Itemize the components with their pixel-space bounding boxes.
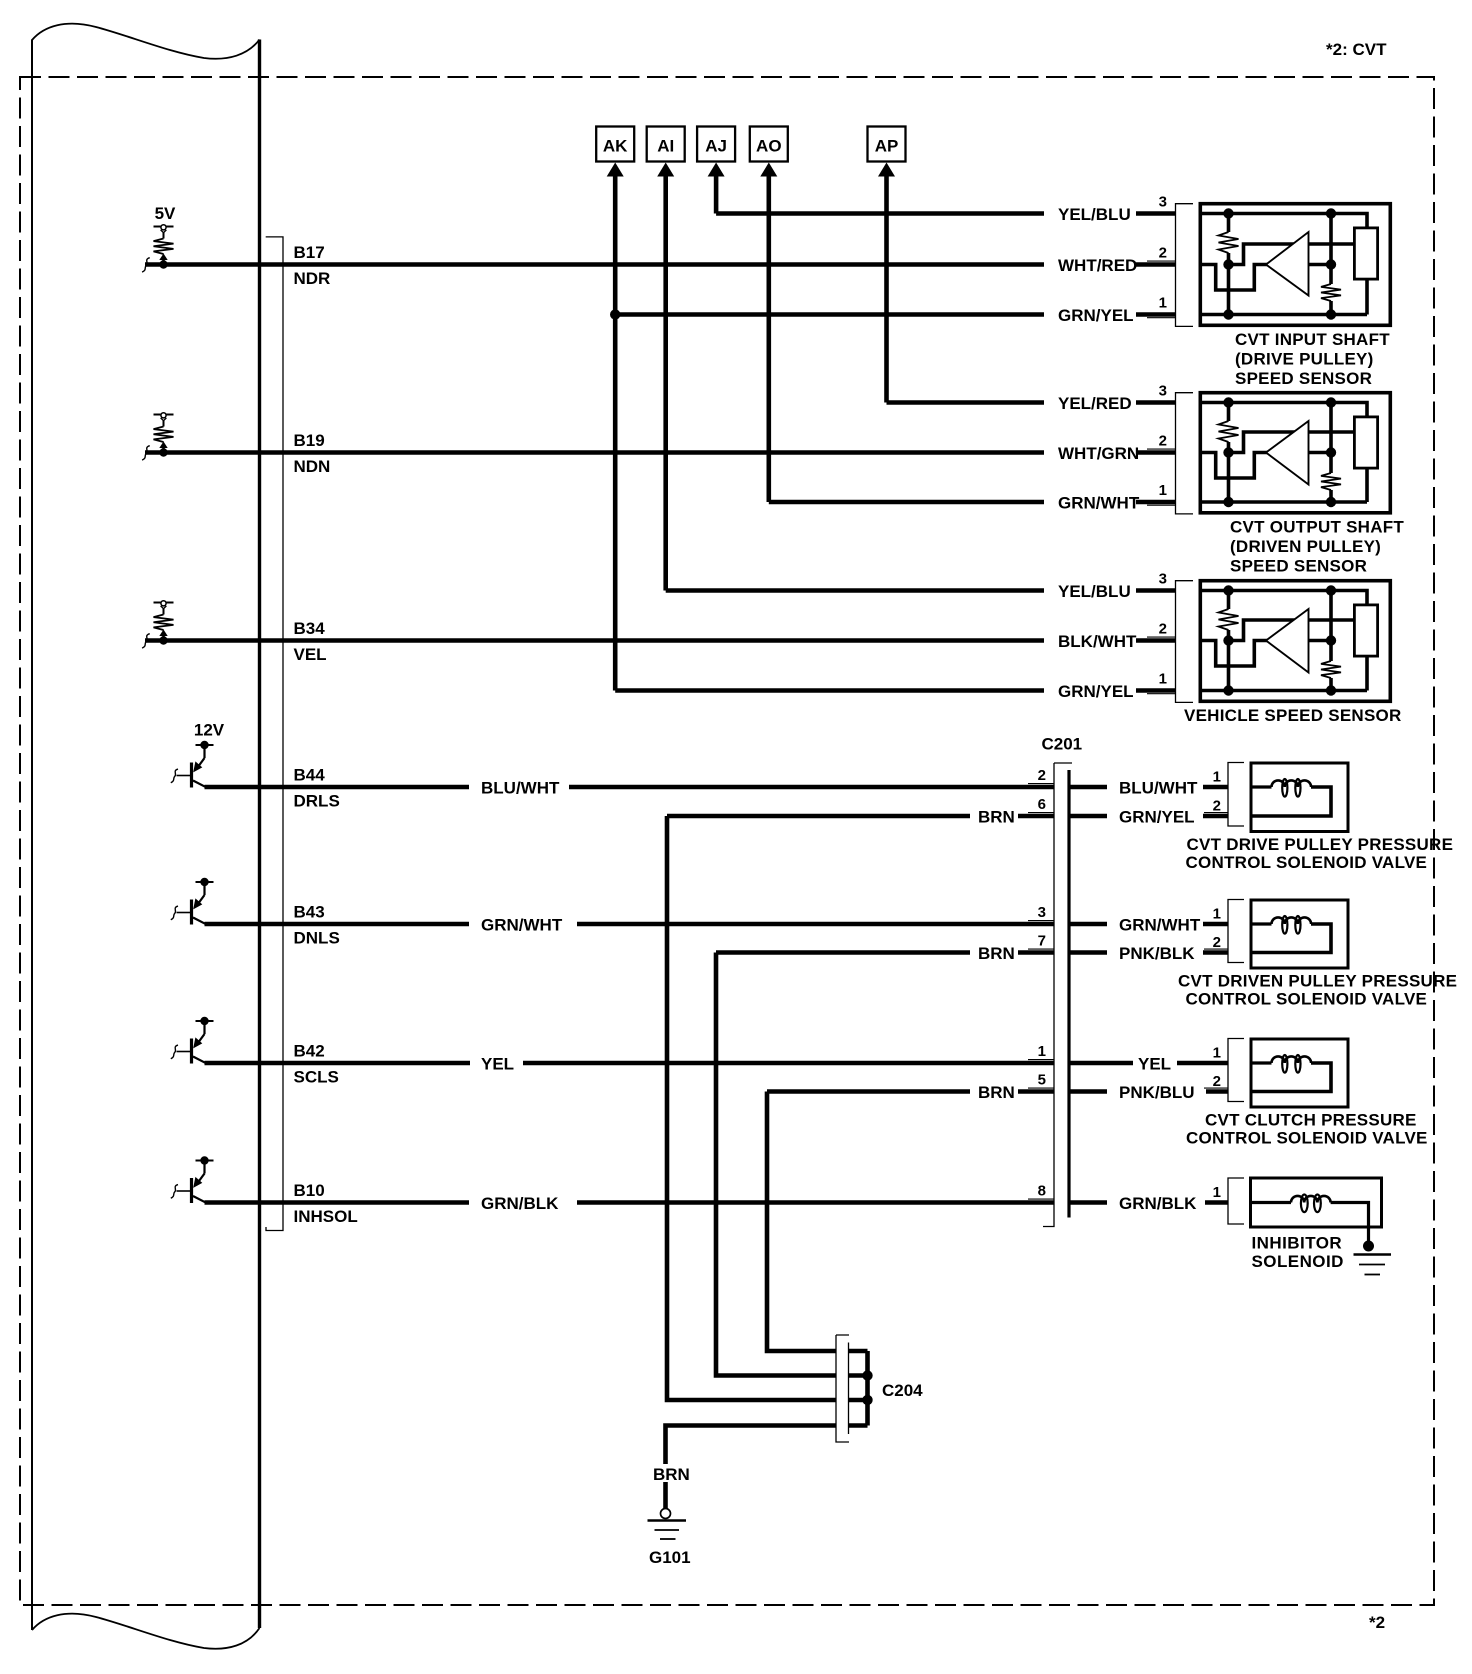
svg-text:1: 1 <box>1213 769 1221 786</box>
svg-text:PNK/BLK: PNK/BLK <box>1119 944 1195 963</box>
transistor Q4 (driver) <box>177 1156 214 1203</box>
connector C204 body <box>836 1335 849 1442</box>
svg-text:BRN: BRN <box>978 1083 1015 1102</box>
wire YEL from C201 <box>1069 1061 1133 1066</box>
sensor 1 junction dots <box>1223 208 1233 218</box>
sensor 1 bias tap wire to amp <box>1229 244 1301 265</box>
svg-text:8: 8 <box>1038 1183 1046 1200</box>
svg-text:GRN/BLK: GRN/BLK <box>1119 1194 1197 1213</box>
svg-text:INHSOL: INHSOL <box>294 1207 358 1226</box>
connector box AO <box>750 127 788 177</box>
svg-text:GRN/WHT: GRN/WHT <box>481 916 563 935</box>
svg-text:BLK/WHT: BLK/WHT <box>1058 632 1137 651</box>
valve 3 pin 2 shelf <box>1204 1087 1228 1089</box>
wire BRN ground leg to C204 <box>666 1426 837 1465</box>
svg-text:5: 5 <box>1038 1072 1046 1089</box>
wire stub into ECM at R3 <box>142 634 150 648</box>
inhibitor connector bracket <box>1228 1178 1244 1224</box>
svg-text:3: 3 <box>1159 383 1167 400</box>
resistor 5V pull-up R2 <box>154 413 174 457</box>
wire YEL to C201 <box>523 1061 1054 1066</box>
svg-text:YEL/BLU: YEL/BLU <box>1058 582 1131 601</box>
wire stub into ECM at Q1 base <box>171 769 178 783</box>
C201 pin 5 shelf <box>1028 1087 1054 1089</box>
svg-text:GRN/WHT: GRN/WHT <box>1058 494 1140 513</box>
svg-text:B10: B10 <box>294 1181 325 1200</box>
sensor 2 signal staircase wire (pin 2) <box>1200 453 1272 479</box>
connector box AK <box>596 127 634 177</box>
svg-text:CVT INPUT SHAFT: CVT INPUT SHAFT <box>1235 330 1390 349</box>
svg-text:BRN: BRN <box>978 808 1015 827</box>
sensor 1 load resistor (rectangle) <box>1354 228 1377 279</box>
connector bracket at sensor 3 <box>1176 581 1194 703</box>
svg-text:1: 1 <box>1038 1043 1046 1060</box>
wire PNK/BLK stub to valve connector <box>1203 950 1228 955</box>
sensor 3 left bias resistor branch <box>1227 591 1231 610</box>
svg-text:2: 2 <box>1213 1073 1221 1090</box>
svg-text:YEL/RED: YEL/RED <box>1058 394 1132 413</box>
wire YEL stub to valve connector <box>1177 1061 1228 1066</box>
svg-text:GRN/YEL: GRN/YEL <box>1058 306 1134 325</box>
C201 pin 6 shelf <box>1028 812 1054 814</box>
C201 pin 7 shelf <box>1028 948 1054 950</box>
wire BRN to ground <box>663 1482 668 1509</box>
svg-text:B19: B19 <box>294 431 325 450</box>
junction node GRN/YEL <box>610 309 620 319</box>
svg-text:G101: G101 <box>649 1548 691 1567</box>
sensor 1 internal supply wire (pin 3) <box>1200 214 1367 227</box>
svg-text:2: 2 <box>1038 767 1046 784</box>
svg-text:AI: AI <box>657 137 674 156</box>
sensor 3 outline box <box>1200 581 1390 702</box>
sensor 2 internal ground wire (pin 1) <box>1200 500 1367 504</box>
sensor 2 junction dots <box>1223 397 1233 407</box>
svg-text:AP: AP <box>875 137 899 156</box>
sensor 3 amp output wires <box>1300 618 1354 622</box>
C201 pin 3 shelf <box>1028 920 1054 922</box>
wire riser AP to YEL/RED row <box>884 175 889 403</box>
svg-text:B34: B34 <box>294 619 326 638</box>
valve 2 pin 2 shelf <box>1204 948 1228 950</box>
inhibitor solenoid coil <box>1251 1195 1369 1242</box>
svg-text:BLU/WHT: BLU/WHT <box>1119 779 1198 798</box>
svg-text:2: 2 <box>1159 433 1167 450</box>
wire YEL/RED stub to sensor connector <box>1136 400 1176 405</box>
svg-text:GRN/YEL: GRN/YEL <box>1058 682 1134 701</box>
wire BLU/WHT stub to valve connector <box>1203 785 1228 790</box>
C204 joined stubs and bus <box>849 1351 873 1426</box>
wire stub into ECM at R1 <box>142 258 150 272</box>
connector box AI <box>647 127 685 177</box>
wire riser AJ to YEL/BLU (sensor 1) row <box>714 175 719 214</box>
valve connector bracket 2 <box>1228 900 1244 963</box>
wire GRN/WHT row <box>769 500 1044 505</box>
svg-text:CVT CLUTCH PRESSURE: CVT CLUTCH PRESSURE <box>1205 1111 1417 1130</box>
svg-text:BRN: BRN <box>653 1465 690 1484</box>
wire GRN/BLK from C201 <box>1069 1200 1107 1205</box>
sensor 3 junction dots <box>1223 585 1233 595</box>
wire riser AI to YEL/BLU row <box>663 175 668 591</box>
svg-text:B17: B17 <box>294 243 325 262</box>
wire BRN row <box>716 950 970 955</box>
wire BLU/WHT from ECM <box>205 785 470 790</box>
valve connector bracket 3 <box>1228 1039 1244 1102</box>
inhibitor solenoid outline box <box>1251 1178 1382 1227</box>
wire GRN/YEL row <box>615 312 1044 317</box>
sensor 2 bias tap wire to amp <box>1229 432 1301 453</box>
wire WHT/GRN row <box>145 450 1044 455</box>
wire BRN riser (pin 5) to C204 <box>767 1092 836 1352</box>
wire BRN riser (pin 7) to C204 <box>716 953 836 1376</box>
wire BLU/WHT from C201 <box>1069 785 1107 790</box>
wire GRN/YEL stub to sensor connector <box>1136 688 1176 693</box>
svg-text:SOLENOID: SOLENOID <box>1252 1252 1344 1271</box>
transistor Q1 (driver) <box>177 741 214 788</box>
svg-text:C204: C204 <box>882 1381 923 1400</box>
solenoid valve 2 coil <box>1251 916 1331 953</box>
solenoid valve 1 outline box <box>1251 763 1348 832</box>
svg-text:BRN: BRN <box>978 944 1015 963</box>
pin shelf lines sensor 2 <box>1147 448 1176 450</box>
svg-text:WHT/GRN: WHT/GRN <box>1058 444 1139 463</box>
pin shelf lines sensor 1 <box>1147 260 1176 262</box>
svg-text:1: 1 <box>1159 671 1167 688</box>
wire WHT/RED stub to sensor connector <box>1136 262 1176 267</box>
svg-text:3: 3 <box>1159 194 1167 211</box>
wire BRN stub to C201 <box>1018 1089 1054 1094</box>
svg-text:GRN/BLK: GRN/BLK <box>481 1194 559 1213</box>
svg-text:(DRIVEN PULLEY): (DRIVEN PULLEY) <box>1230 537 1381 556</box>
wire PNK/BLK from C201 <box>1069 950 1107 955</box>
wire GRN/BLK stub to valve connector <box>1205 1200 1228 1205</box>
svg-text:DNLS: DNLS <box>294 929 340 948</box>
svg-text:1: 1 <box>1213 1184 1221 1201</box>
svg-text:B42: B42 <box>294 1042 325 1061</box>
wire PNK/BLU from C201 <box>1069 1089 1107 1094</box>
svg-text:AJ: AJ <box>705 137 727 156</box>
sensor 1 amp output wires <box>1300 242 1354 246</box>
sensor 2 amplifier triangle <box>1266 421 1309 485</box>
solenoid valve 3 coil <box>1251 1055 1331 1092</box>
svg-text:SCLS: SCLS <box>294 1068 339 1087</box>
wire GRN/WHT stub to sensor connector <box>1136 500 1176 505</box>
svg-text:C201: C201 <box>1042 735 1083 754</box>
svg-text:YEL: YEL <box>481 1055 514 1074</box>
wire GRN/BLK from ECM <box>205 1200 470 1205</box>
svg-text:1: 1 <box>1159 295 1167 312</box>
wire riser AO to GRN/WHT row <box>766 175 771 502</box>
wire GRN/BLK to C201 <box>577 1200 1054 1205</box>
sensor 3 signal staircase wire (pin 2) <box>1200 641 1272 667</box>
svg-text:1: 1 <box>1213 906 1221 923</box>
svg-text:NDN: NDN <box>294 457 331 476</box>
transistor Q2 (driver) <box>177 878 214 925</box>
connector C201 body <box>1043 763 1072 1227</box>
wire YEL/BLU stub to sensor connector <box>1136 588 1176 593</box>
wire PNK/BLU stub to valve connector <box>1206 1089 1228 1094</box>
svg-text:12V: 12V <box>194 721 225 740</box>
svg-text:1: 1 <box>1159 482 1167 499</box>
wire BRN stub to C201 <box>1018 950 1054 955</box>
svg-text:2: 2 <box>1213 934 1221 951</box>
ECM/PCM module body (torn edges) <box>32 24 260 1649</box>
valve 1 pin 2 shelf <box>1204 812 1228 814</box>
svg-text:SPEED SENSOR: SPEED SENSOR <box>1230 557 1367 576</box>
wire BRN riser (pin 6) to C204 <box>667 816 836 1400</box>
svg-text:YEL/BLU: YEL/BLU <box>1058 205 1131 224</box>
sensor 1 signal staircase wire (pin 2) <box>1200 265 1272 291</box>
svg-text:7: 7 <box>1038 933 1046 950</box>
transistor Q3 (driver) <box>177 1017 214 1064</box>
sensor 3 right pull resistor branch <box>1329 591 1333 662</box>
wire GRN/YEL stub to sensor connector <box>1136 312 1176 317</box>
svg-text:5V: 5V <box>155 204 176 223</box>
wire GRN/WHT stub to valve connector <box>1203 922 1228 927</box>
svg-text:3: 3 <box>1038 904 1046 921</box>
sensor 1 outline box <box>1200 204 1390 326</box>
valve connector bracket 1 <box>1228 763 1244 827</box>
svg-text:*2: CVT: *2: CVT <box>1326 40 1387 59</box>
wire riser AK to GRN/YEL rows <box>613 175 618 691</box>
wire YEL from ECM <box>205 1061 471 1066</box>
sensor 2 amp output wires <box>1300 430 1354 434</box>
sensor 2 wire rect to ground rail <box>1365 470 1369 503</box>
wire YEL/RED row <box>887 400 1045 405</box>
svg-text:WHT/RED: WHT/RED <box>1058 256 1137 275</box>
wire BLU/WHT to C201 <box>569 785 1054 790</box>
svg-text:CONTROL SOLENOID VALVE: CONTROL SOLENOID VALVE <box>1186 853 1428 872</box>
wire GRN/WHT from ECM <box>205 922 470 927</box>
svg-text:VEHICLE SPEED SENSOR: VEHICLE SPEED SENSOR <box>1184 706 1402 725</box>
wire YEL/BLU row <box>716 211 1044 216</box>
svg-text:2: 2 <box>1159 621 1167 638</box>
svg-text:BLU/WHT: BLU/WHT <box>481 779 560 798</box>
svg-text:AO: AO <box>756 137 782 156</box>
sensor 3 bias tap wire to amp <box>1229 620 1301 641</box>
wire stub into ECM at R2 <box>142 446 150 460</box>
svg-text:2: 2 <box>1213 798 1221 815</box>
wire GRN/WHT to C201 <box>577 922 1054 927</box>
wire BRN row <box>667 814 970 819</box>
svg-text:CONTROL SOLENOID VALVE: CONTROL SOLENOID VALVE <box>1186 990 1428 1009</box>
wire GRN/WHT from C201 <box>1069 922 1107 927</box>
sensor 3 internal ground wire (pin 1) <box>1200 689 1367 693</box>
svg-text:2: 2 <box>1159 245 1167 262</box>
svg-text:YEL: YEL <box>1138 1055 1171 1074</box>
svg-text:(DRIVE PULLEY): (DRIVE PULLEY) <box>1235 350 1374 369</box>
connector box AP <box>868 127 906 177</box>
solenoid valve 1 coil <box>1251 779 1331 816</box>
wire GRN/YEL row <box>615 688 1044 693</box>
wire WHT/GRN stub to sensor connector <box>1136 450 1176 455</box>
resistor 5V pull-up R1 <box>154 225 174 269</box>
solenoid valve 2 outline box <box>1251 900 1348 968</box>
svg-text:CVT DRIVEN PULLEY PRESSURE: CVT DRIVEN PULLEY PRESSURE <box>1178 972 1457 991</box>
connector bracket at sensor 1 <box>1176 204 1194 327</box>
sensor 1 amplifier triangle <box>1266 232 1309 296</box>
svg-text:INHIBITOR: INHIBITOR <box>1252 1234 1343 1253</box>
svg-text:1: 1 <box>1213 1045 1221 1062</box>
sensor 3 amplifier triangle <box>1266 609 1309 673</box>
sensor 3 load resistor (rectangle) <box>1354 605 1377 656</box>
wire YEL/BLU stub to sensor connector <box>1136 211 1176 216</box>
wire BLK/WHT stub to sensor connector <box>1136 638 1176 643</box>
wire GRN/YEL from C201 <box>1069 814 1107 819</box>
sensor 3 wire rect to ground rail <box>1365 658 1369 691</box>
wire stub into ECM at Q4 base <box>171 1185 178 1199</box>
sensor 1 wire rect to ground rail <box>1365 281 1369 315</box>
svg-text:DRLS: DRLS <box>294 792 340 811</box>
svg-text:CVT OUTPUT SHAFT: CVT OUTPUT SHAFT <box>1230 518 1404 537</box>
ground G101 symbol <box>648 1509 687 1540</box>
sensor 1 internal ground wire (pin 1) <box>1200 313 1367 317</box>
sensor 2 internal supply wire (pin 3) <box>1200 403 1367 416</box>
resistor 5V pull-up R3 <box>154 601 174 645</box>
solenoid valve 3 outline box <box>1251 1039 1348 1107</box>
wire GRN/YEL stub to valve connector <box>1203 814 1228 819</box>
sensor 2 right pull resistor branch <box>1329 403 1333 474</box>
sensor 2 left bias resistor branch <box>1227 403 1231 422</box>
wire YEL/BLU row <box>666 588 1044 593</box>
connector bracket at sensor 2 <box>1176 393 1194 514</box>
inhibitor case ground <box>1354 1241 1392 1275</box>
sensor 1 left bias resistor branch <box>1227 214 1231 233</box>
pin shelf lines sensor 3 <box>1147 636 1176 638</box>
wire stub into ECM at Q2 base <box>171 906 178 920</box>
svg-text:AK: AK <box>603 137 628 156</box>
sensor 3 internal supply wire (pin 3) <box>1200 591 1367 604</box>
wire WHT/RED row <box>145 262 1044 267</box>
ECM pin-strip connector <box>266 237 283 1231</box>
sensor 2 outline box <box>1200 393 1390 513</box>
svg-text:GRN/WHT: GRN/WHT <box>1119 916 1201 935</box>
sensor 2 load resistor (rectangle) <box>1354 417 1377 468</box>
svg-text:*2: *2 <box>1369 1613 1385 1632</box>
C201 pin 8 shelf <box>1028 1198 1054 1200</box>
connector box AJ <box>697 127 735 177</box>
wire BRN stub to C201 <box>1018 814 1054 819</box>
svg-text:GRN/YEL: GRN/YEL <box>1119 808 1195 827</box>
C201 pin 1 shelf <box>1028 1059 1054 1061</box>
svg-text:CVT DRIVE PULLEY PRESSURE: CVT DRIVE PULLEY PRESSURE <box>1187 835 1454 854</box>
svg-text:NDR: NDR <box>294 269 331 288</box>
svg-text:VEL: VEL <box>294 645 327 664</box>
svg-text:6: 6 <box>1038 796 1046 813</box>
wire stub into ECM at Q3 base <box>171 1045 178 1059</box>
wire BLK/WHT row <box>145 638 1044 643</box>
svg-text:B44: B44 <box>294 766 326 785</box>
wire BRN row <box>767 1089 970 1094</box>
sensor 1 right pull resistor branch <box>1329 214 1333 285</box>
svg-text:B43: B43 <box>294 903 325 922</box>
svg-text:3: 3 <box>1159 571 1167 588</box>
svg-text:PNK/BLU: PNK/BLU <box>1119 1083 1195 1102</box>
svg-text:CONTROL SOLENOID VALVE: CONTROL SOLENOID VALVE <box>1186 1129 1428 1148</box>
svg-text:SPEED SENSOR: SPEED SENSOR <box>1235 369 1372 388</box>
C201 pin 2 shelf <box>1028 783 1054 785</box>
